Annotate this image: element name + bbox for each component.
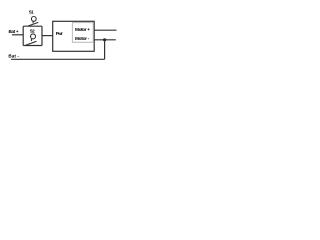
svg-text:Pwr: Pwr (56, 31, 63, 36)
svg-text:S1: S1 (29, 10, 35, 15)
svg-text:Motor -: Motor - (75, 36, 90, 42)
svg-text:Bat -: Bat - (8, 54, 19, 59)
svg-text:Bat +: Bat + (9, 29, 19, 34)
svg-text:Motor +: Motor + (75, 27, 90, 33)
svg-text:S2: S2 (30, 28, 36, 33)
